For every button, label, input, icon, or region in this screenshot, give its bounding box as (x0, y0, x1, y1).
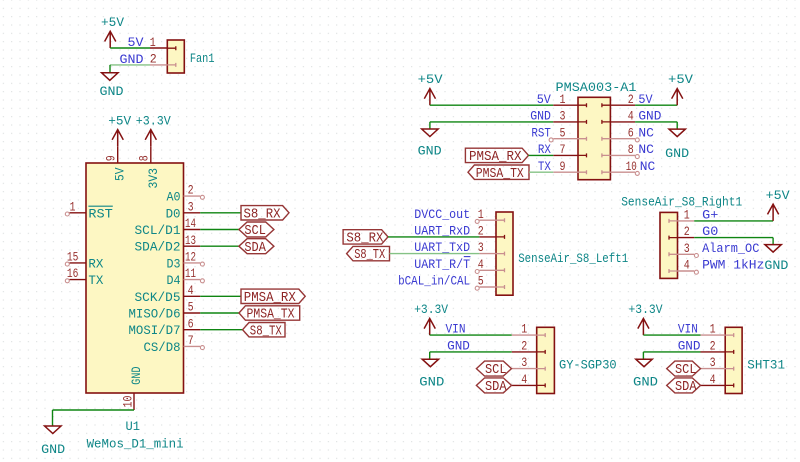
U1 pin 8 (3V3) top (137, 146, 161, 188)
svg-text:Alarm_OC: Alarm_OC (702, 241, 759, 256)
label Fan1 (190, 51, 215, 66)
U1 pin 11 (D4) right (167, 266, 205, 288)
U1 pin 7 (CS/D8) right (144, 333, 205, 355)
svg-text:9: 9 (560, 159, 566, 174)
U1 pin 3 (D0) right (166, 199, 201, 221)
U1 pin 4 (SCK/D5) right (135, 283, 201, 305)
component SenseAir_S8_Right1 body (660, 212, 678, 278)
title GY-SGP30 (559, 358, 617, 373)
svg-text:5: 5 (560, 125, 566, 140)
svg-text:RX: RX (88, 256, 103, 271)
power +3.3V (GY-SGP30) (414, 302, 448, 335)
svg-text:S8_TX: S8_TX (250, 324, 282, 339)
svg-text:MOSI/D7: MOSI/D7 (129, 323, 181, 338)
PMSA003-A1 pin 5 (RST) left (531, 125, 586, 140)
svg-text:TX: TX (88, 273, 103, 288)
component U1 body (86, 163, 184, 393)
svg-text:1: 1 (710, 322, 716, 337)
U1 pin 10 (GND) bottom (120, 366, 144, 410)
U1 pin 5 (MISO/D6) right (129, 300, 201, 322)
SenseAir_S8_Left1 pin 5 (bCAL_in/CAL) (398, 274, 504, 291)
svg-text:PMSA_TX: PMSA_TX (247, 308, 295, 323)
svg-text:MISO/D6: MISO/D6 (129, 307, 181, 322)
connector Fan1 body (167, 40, 184, 73)
wire PMSA pin 2 to +5V (635, 104, 677, 106)
svg-text:GND: GND (665, 146, 689, 161)
GY-SGP30 pin 2 (447, 339, 545, 354)
svg-text:SCL: SCL (485, 363, 507, 378)
svg-text:D4: D4 (167, 273, 181, 288)
PMSA003-A1 pin 6 (NC) right (602, 125, 654, 142)
GY-SGP30 pin 4 (512, 372, 545, 387)
svg-text:5V: 5V (128, 35, 144, 50)
ground (GY-SGP30) (419, 359, 444, 389)
SenseAir_S8_Left1 pin 1 (DVCC_out) (414, 207, 504, 224)
ground (PMSA right) (665, 129, 689, 161)
power +5V (U1 pin 9) (108, 113, 131, 146)
svg-text:15: 15 (67, 250, 79, 265)
svg-text:PMSA_RX: PMSA_RX (469, 150, 522, 165)
svg-text:7: 7 (188, 333, 194, 348)
svg-text:+5V: +5V (766, 188, 790, 203)
global label S8_TX (SenseAir) (347, 246, 390, 263)
svg-text:SCK/D5: SCK/D5 (135, 290, 181, 305)
svg-text:4: 4 (710, 372, 716, 387)
local label SCL (SHT) (667, 361, 701, 378)
wire G+ to +5V (694, 220, 773, 222)
global label S8_RX (SenseAir) (343, 230, 388, 247)
svg-text:U1: U1 (126, 419, 141, 434)
component GY-SGP30 body (537, 327, 555, 393)
local label SCL (GY) (476, 361, 511, 378)
wire Fan1 pin 2 to GND (110, 65, 150, 73)
SHT31 pin 4 (701, 372, 734, 387)
svg-text:GY-SGP30: GY-SGP30 (559, 358, 617, 373)
power +3.3V (SHT31) (629, 302, 663, 335)
global label S8_RX (U1) (241, 206, 289, 223)
svg-text:1: 1 (560, 92, 566, 107)
power +3.3V (U1 pin 8) (136, 113, 171, 146)
svg-text:10: 10 (120, 396, 135, 408)
wire PMSA pin 4 to GND (635, 122, 677, 129)
svg-text:GND: GND (633, 375, 658, 390)
svg-text:S8_RX: S8_RX (244, 207, 281, 222)
svg-text:+5V: +5V (418, 72, 443, 87)
svg-text:2: 2 (684, 224, 690, 239)
PMSA003-A1 pin 10 (NC) right (602, 159, 656, 176)
component SHT31 body (725, 327, 742, 393)
wire +3.3V to GY VIN (430, 334, 512, 336)
SenseAir_S8_Left1 pin 2 (UART_RxD) (414, 224, 504, 239)
SenseAir_S8_Right1 pin 4 (PWM 1kHz) (669, 258, 764, 275)
svg-text:3V3: 3V3 (146, 168, 161, 189)
svg-text:GND: GND (530, 109, 551, 124)
PMSA003-A1 pin 3 (GND) left (530, 109, 586, 124)
svg-text:+5V: +5V (101, 15, 124, 30)
svg-text:GND: GND (418, 144, 442, 159)
power +5V (PMSA left) (418, 72, 443, 105)
svg-text:SDA/D2: SDA/D2 (135, 240, 181, 255)
wire +5V to Fan1 pin 1 (110, 47, 150, 49)
svg-text:GND: GND (100, 84, 124, 99)
svg-text:5: 5 (188, 300, 194, 315)
wire S8_RX to UART_RxD (388, 236, 479, 238)
wire +5V to PMSA pin 1 (430, 104, 553, 106)
svg-text:SHT31: SHT31 (747, 358, 785, 373)
ground (SenseAir right) (764, 245, 788, 274)
SenseAir_S8_Left1 pin 3 (UART_TxD) (414, 240, 504, 255)
wire D0 to S8_RX (200, 212, 241, 214)
component PMSA003-A1 body (578, 97, 610, 179)
svg-text:WeMos_D1_mini: WeMos_D1_mini (87, 436, 184, 451)
svg-text:GND: GND (447, 339, 470, 354)
wire +3.3V to SHT VIN (643, 334, 700, 336)
GY-SGP30 pin 1 (446, 322, 546, 337)
Fan1 pin 2 (GND) (120, 52, 168, 67)
svg-text:5V: 5V (112, 167, 127, 181)
power +5V (SenseAir right) (766, 188, 790, 221)
wire SCK/D5 to PMSA_RX (200, 295, 241, 297)
U1 pin 12 (D3) right (167, 250, 205, 272)
svg-text:SenseAir_S8_Left1: SenseAir_S8_Left1 (518, 251, 628, 266)
power +5V (Fan1) (101, 15, 124, 48)
wire MISO/D6 to PMSA_TX (200, 312, 239, 314)
svg-text:S8_RX: S8_RX (346, 232, 383, 247)
svg-text:GND: GND (129, 366, 144, 385)
svg-text:2: 2 (710, 339, 716, 354)
svg-text:SCL: SCL (244, 224, 266, 239)
U1 pin 9 (5V) top (104, 146, 128, 181)
svg-text:PMSA003-A1: PMSA003-A1 (556, 80, 637, 95)
wire S8_TX to UART_TxD (390, 253, 480, 255)
svg-text:3: 3 (684, 241, 690, 256)
svg-text:D3: D3 (167, 256, 181, 271)
wire U1 pin 10 to GND (53, 410, 135, 426)
ground (U1) (41, 426, 65, 457)
svg-text:GND: GND (41, 442, 65, 457)
SenseAir_S8_Right1 pin 1 (G+) (669, 208, 718, 223)
svg-text:Fan1: Fan1 (190, 51, 215, 66)
svg-text:1: 1 (684, 208, 690, 223)
PMSA003-A1 pin 8 (NC) right (602, 142, 654, 159)
wire PMSA pin 3 to GND (430, 122, 553, 129)
wire PMSA_RX to pin 7 (529, 154, 554, 156)
svg-text:1: 1 (521, 322, 527, 337)
global label PMSA_TX (PMSA) (468, 165, 529, 182)
PMSA003-A1 pin 4 (GND) right (602, 109, 662, 124)
SHT31 pin 2 (678, 339, 734, 354)
ground (PMSA left) (418, 129, 442, 159)
svg-text:SCL/D1: SCL/D1 (135, 223, 181, 238)
SenseAir_S8_Right1 pin 2 (G0) (669, 224, 718, 239)
title PMSA003-A1 (556, 80, 637, 95)
svg-text:1: 1 (70, 199, 76, 214)
global label PMSA_TX (U1) (239, 306, 300, 323)
overline UART_R/T (464, 256, 471, 258)
svg-text:DVCC_out: DVCC_out (414, 207, 470, 222)
wire GY GND (430, 352, 512, 359)
svg-text:PMSA_TX: PMSA_TX (476, 167, 524, 182)
svg-text:4: 4 (188, 283, 194, 298)
svg-text:SCL: SCL (675, 363, 697, 378)
svg-text:7: 7 (560, 142, 566, 157)
svg-text:3: 3 (560, 109, 566, 124)
wire SHT GND (643, 352, 700, 359)
wire G0 to GND (694, 238, 773, 245)
svg-text:D0: D0 (166, 206, 181, 221)
svg-text:2: 2 (150, 52, 157, 67)
global label PMSA_RX (PMSA) (465, 148, 528, 165)
U1 pin 15 (RX) left (65, 250, 103, 272)
PMSA003-A1 pin 5 unconnected circle (549, 138, 553, 142)
svg-text:6: 6 (188, 316, 194, 331)
local label SDA (SHT) (667, 378, 701, 395)
svg-text:14: 14 (185, 216, 196, 231)
U1 pin 16 (TX) left (65, 266, 103, 288)
U1 pin 6 (MOSI/D7) right (129, 316, 201, 338)
svg-text:11: 11 (185, 266, 196, 281)
wire MOSI/D7 to S8_TX (200, 329, 242, 331)
PMSA003-A1 pin 2 (5V) right (602, 92, 653, 107)
svg-text:3: 3 (710, 355, 716, 370)
svg-text:SDA: SDA (485, 380, 507, 395)
title SenseAir_S8_Right1 (621, 195, 742, 210)
svg-text:1: 1 (150, 35, 156, 50)
svg-text:S8_TX: S8_TX (354, 248, 385, 263)
svg-text:2: 2 (188, 183, 194, 198)
svg-text:+5V: +5V (108, 113, 131, 128)
wire SCL/D1 to SCL (200, 229, 239, 231)
svg-text:16: 16 (67, 266, 79, 281)
svg-text:GND: GND (419, 375, 444, 390)
power +5V (PMSA right) (668, 72, 693, 105)
svg-text:A0: A0 (167, 190, 181, 205)
U1 pin 2 (A0) right (167, 183, 205, 205)
svg-text:bCAL_in/CAL: bCAL_in/CAL (398, 274, 470, 289)
svg-text:13: 13 (185, 233, 196, 248)
title SHT31 (747, 358, 785, 373)
svg-text:6: 6 (628, 125, 634, 140)
wire SDA/D2 to SDA (200, 245, 239, 247)
SenseAir_S8_Right1 pin 3 (Alarm_OC) (669, 241, 760, 258)
U1 pin 1 (RST) left (65, 199, 113, 221)
wire PMSA_TX to pin 9 (529, 171, 553, 173)
svg-text:+3.3V: +3.3V (136, 113, 171, 128)
svg-text:+3.3V: +3.3V (629, 302, 663, 317)
svg-text:NC: NC (640, 159, 656, 174)
SHT31 pin 1 (678, 322, 734, 337)
SHT31 pin 3 (701, 355, 734, 370)
svg-text:2: 2 (521, 339, 527, 354)
svg-text:VIN: VIN (678, 322, 698, 337)
global label PMSA_RX (U1) (241, 289, 305, 306)
PMSA003-A1 pin 9 (TX) left (538, 159, 587, 174)
GY-SGP30 pin 3 (512, 355, 545, 370)
U1 pin 14 (SCL/D1) right (135, 216, 201, 238)
svg-text:4: 4 (521, 372, 527, 387)
svg-text:NC: NC (638, 142, 654, 157)
value WeMos_D1_mini (87, 436, 184, 451)
svg-text:UART_R/T: UART_R/T (414, 257, 470, 272)
svg-text:SDA: SDA (675, 380, 697, 395)
reference U1 (126, 419, 141, 434)
PMSA003-A1 pin 1 (5V) left (537, 92, 587, 107)
ground (Fan1) (100, 73, 124, 99)
title SenseAir_S8_Left1 (518, 251, 628, 266)
svg-text:5V: 5V (537, 92, 551, 107)
svg-text:PWM 1kHz: PWM 1kHz (702, 258, 764, 273)
svg-text:SenseAir_S8_Right1: SenseAir_S8_Right1 (621, 195, 742, 210)
PMSA003-A1 pin 7 (RX) left (538, 142, 587, 157)
svg-text:GND: GND (678, 339, 701, 354)
svg-text:GND: GND (764, 258, 788, 273)
svg-text:PMSA_RX: PMSA_RX (244, 291, 296, 306)
svg-text:RST: RST (88, 206, 113, 221)
component SenseAir_S8_Left1 body (496, 212, 513, 295)
local label SDA (GY) (476, 378, 511, 395)
svg-text:SDA: SDA (244, 241, 266, 256)
svg-text:3: 3 (188, 199, 194, 214)
SenseAir_S8_Left1 pin 4 (UART_R/T) (414, 257, 504, 274)
ground (SHT31) (633, 359, 658, 389)
U1 pin 13 (SDA/D2) right (135, 233, 201, 255)
svg-text:2: 2 (628, 92, 634, 107)
svg-text:4: 4 (628, 109, 634, 124)
svg-text:3: 3 (521, 355, 527, 370)
svg-text:+3.3V: +3.3V (414, 302, 448, 317)
svg-text:CS/D8: CS/D8 (144, 340, 181, 355)
svg-text:8: 8 (628, 142, 634, 157)
global label S8_TX (U1) (243, 323, 285, 340)
svg-text:8: 8 (137, 155, 152, 161)
Fan1 pin 1 (5V) (128, 35, 168, 50)
svg-text:RST: RST (531, 125, 551, 140)
svg-text:4: 4 (684, 258, 690, 273)
svg-text:+5V: +5V (668, 72, 693, 87)
global label SCL (U1) (239, 222, 274, 239)
global label SDA (U1) (239, 239, 274, 256)
svg-text:12: 12 (185, 250, 196, 265)
svg-text:9: 9 (104, 155, 119, 161)
svg-text:NC: NC (638, 125, 654, 140)
svg-text:10: 10 (626, 159, 637, 174)
svg-text:VIN: VIN (446, 322, 466, 337)
